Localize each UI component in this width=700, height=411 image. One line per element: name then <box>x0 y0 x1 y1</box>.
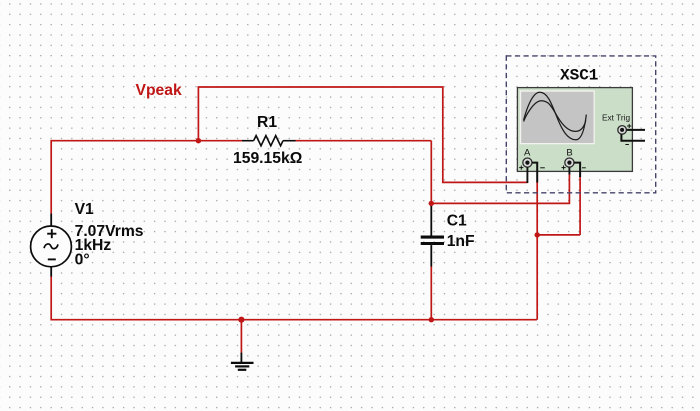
svg-text:C1: C1 <box>447 213 467 230</box>
terminal A negative hook <box>532 163 537 183</box>
wire <box>579 176 581 235</box>
wire <box>51 141 242 214</box>
node ground junction <box>238 317 244 323</box>
wire <box>51 276 537 319</box>
ac voltage source V1 <box>31 214 72 277</box>
wire <box>536 235 538 320</box>
ground <box>231 353 254 370</box>
node C1 ground junction <box>429 317 434 322</box>
wire <box>536 182 538 235</box>
terminal B pin <box>568 167 570 174</box>
wire <box>430 141 432 204</box>
terminal B <box>565 158 574 167</box>
node scope ground junction <box>535 232 540 237</box>
wire <box>430 266 432 319</box>
Ext Trig polarity marks <box>625 124 631 145</box>
svg-text:XSC1: XSC1 <box>560 67 598 85</box>
node output junction <box>429 201 434 206</box>
A polarity marks <box>519 166 545 170</box>
wire <box>295 140 431 142</box>
wire <box>198 87 527 182</box>
svg-text:V1: V1 <box>75 201 94 218</box>
XSC1 waveform trace 2 <box>524 101 586 132</box>
node Vpeak junction <box>196 138 201 143</box>
svg-text:159.15kΩ: 159.15kΩ <box>233 150 302 167</box>
svg-text:Ext Trig: Ext Trig <box>602 112 631 122</box>
svg-text:R1: R1 <box>257 114 277 131</box>
oscilloscope XSC1 selection box <box>506 56 655 193</box>
svg-text:B: B <box>566 147 572 158</box>
resistor R1 <box>242 136 296 146</box>
B polarity marks <box>562 166 586 170</box>
capacitor C1 <box>421 205 444 267</box>
wire <box>240 320 242 353</box>
svg-text:A: A <box>524 147 531 158</box>
wire <box>537 234 580 236</box>
XSC1 screen <box>520 90 595 144</box>
XSC1 waveform trace 1 <box>524 92 587 140</box>
svg-text:1nF: 1nF <box>447 233 475 250</box>
svg-text:0°: 0° <box>75 252 90 269</box>
Ext Trig terminal <box>618 126 627 135</box>
terminal A <box>523 158 532 167</box>
Ext Trig pin stubs <box>621 130 645 141</box>
terminal A pin <box>526 167 528 183</box>
oscilloscope XSC1 body <box>517 88 632 172</box>
wire <box>431 174 569 204</box>
svg-text:Vpeak: Vpeak <box>136 82 182 99</box>
terminal B negative hook <box>574 163 580 177</box>
